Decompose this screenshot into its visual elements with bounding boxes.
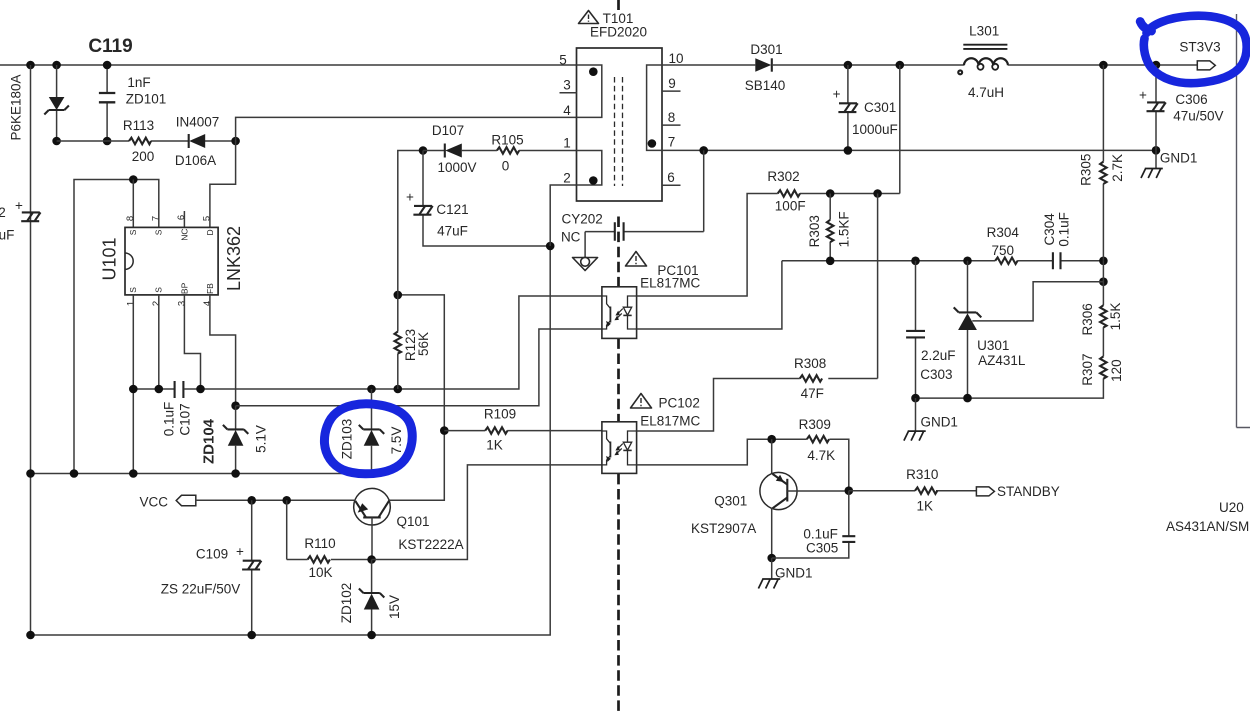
inductor L301 4.7uH	[963, 45, 1007, 49]
svg-text:IN4007: IN4007	[176, 114, 220, 129]
svg-text:7: 7	[150, 216, 161, 221]
svg-text:R110: R110	[304, 536, 335, 551]
svg-text:0.1uF: 0.1uF	[161, 402, 176, 437]
svg-text:BP: BP	[180, 282, 190, 294]
svg-text:47u/50V: 47u/50V	[1173, 108, 1223, 123]
svg-text:D106A: D106A	[175, 153, 216, 168]
svg-text:+: +	[1139, 87, 1147, 102]
wire T101 pin3 stub	[560, 92, 577, 94]
resistor R307 120	[916, 378, 1104, 398]
svg-text:L301: L301	[969, 23, 999, 38]
diode PC101 LED	[628, 296, 637, 329]
resistor R304 750	[995, 258, 1017, 265]
svg-text:GND1: GND1	[775, 565, 813, 580]
resistor R305 2.7K	[1102, 65, 1104, 261]
svg-text:EL817MC: EL817MC	[640, 275, 700, 290]
zener ZD104 5.1V	[235, 406, 237, 474]
wire U101 pin 2 down	[158, 295, 160, 389]
svg-text:2.7K: 2.7K	[1110, 154, 1125, 182]
capacitor C1x2 22uF fragment at left edge	[21, 212, 40, 221]
resistor R309 4.7K	[807, 436, 829, 443]
wire T101 pin8 stub	[662, 124, 681, 126]
svg-text:2.2uF: 2.2uF	[921, 348, 956, 363]
wire R113 row	[57, 140, 236, 142]
svg-text:R105: R105	[491, 132, 523, 147]
opto PC102 EL817MC body	[602, 422, 637, 474]
node return left	[26, 469, 35, 478]
annotation blue circle ST3V3	[1144, 16, 1247, 84]
svg-text:R307: R307	[1080, 353, 1095, 385]
svg-text:5.1V: 5.1V	[253, 425, 268, 453]
wire R308 row	[637, 194, 878, 432]
wire VCC row	[196, 499, 354, 501]
opto PC101 EL817MC body	[602, 287, 637, 339]
page border line	[1237, 14, 1250, 428]
svg-text:C119: C119	[88, 36, 132, 57]
wire ref row to PC101 anode	[637, 261, 782, 329]
node gnd row C303	[911, 394, 920, 403]
svg-text:D107: D107	[432, 123, 464, 138]
node return pin1	[129, 469, 138, 478]
capacitor CY202 NC	[585, 150, 704, 257]
resistor R113 200	[129, 138, 151, 145]
node STANDBY flag	[976, 487, 994, 496]
resistor R308 47F	[800, 375, 822, 382]
node rail C306	[1152, 61, 1161, 70]
wire Q101 collector to R123 node	[389, 295, 444, 500]
svg-text:R309: R309	[799, 417, 831, 432]
svg-text:C121: C121	[436, 202, 468, 217]
svg-text:NC: NC	[561, 230, 581, 245]
node rail C301	[844, 61, 853, 70]
svg-text:R308: R308	[794, 356, 826, 371]
node R308 top	[873, 189, 882, 198]
node T101 dot primary	[589, 67, 598, 76]
svg-text:1K: 1K	[486, 437, 503, 452]
svg-text:ZD104: ZD104	[201, 418, 218, 464]
wire pin7 rail	[662, 149, 1156, 151]
svg-text:100F: 100F	[775, 199, 806, 214]
diode D107 1000V	[423, 150, 497, 152]
svg-text:2: 2	[563, 171, 571, 186]
svg-text:1000V: 1000V	[437, 160, 476, 175]
wire isolation barrier dashed	[617, 0, 620, 712]
resistor R306 1.5K	[1102, 261, 1104, 357]
capacitor C107 0.1uF	[175, 381, 184, 398]
node rail2 end C306	[1152, 146, 1161, 155]
node T101 dot aux	[589, 176, 598, 185]
ground GND1 top right	[1155, 150, 1157, 168]
svg-text:0.1uF: 0.1uF	[803, 527, 838, 542]
node return ZD104	[231, 469, 240, 478]
transistor Q101 KST2222A	[354, 488, 391, 525]
svg-text:1: 1	[125, 301, 136, 306]
wire U101 upper-left loop	[74, 180, 159, 474]
node collector R109 tap	[440, 426, 449, 435]
wire U101 pin 6 NC stub	[183, 211, 185, 227]
svg-text:+: +	[15, 198, 23, 213]
svg-text:AZ431L: AZ431L	[978, 353, 1026, 368]
node ref right	[1099, 257, 1108, 266]
node S bus BP	[196, 385, 205, 394]
node bus left	[26, 631, 35, 640]
node D107 junction	[419, 146, 428, 155]
wire pin10 to D301	[662, 64, 755, 66]
node rail2 C301	[844, 146, 853, 155]
wire zener return line	[31, 473, 372, 475]
svg-text:PC102: PC102	[659, 396, 700, 411]
svg-text:3: 3	[176, 301, 187, 306]
svg-text:7.5V: 7.5V	[389, 427, 404, 455]
node bus C109	[247, 631, 256, 640]
node D106A junction	[231, 137, 240, 146]
svg-text:Q301: Q301	[714, 493, 747, 508]
node ref U301	[963, 257, 972, 266]
node TVS bottom corner	[52, 137, 61, 146]
svg-text:1.5K: 1.5K	[1108, 303, 1123, 331]
svg-text:U301: U301	[977, 338, 1009, 353]
svg-text:R113: R113	[123, 118, 154, 133]
svg-text:P6KE180A: P6KE180A	[9, 74, 24, 140]
svg-text:8: 8	[668, 110, 676, 125]
node FB junction	[231, 401, 240, 410]
wire T101 pin9 stub	[662, 90, 681, 92]
wire U301 ref tap	[972, 282, 1103, 321]
svg-text:C107: C107	[177, 403, 192, 435]
shunt regulator U301 AZ431L	[967, 261, 969, 398]
resistor R105 0	[497, 147, 519, 154]
node TVS top junction	[52, 61, 61, 70]
zener ZD103 7.5V	[371, 389, 373, 474]
node U101 pin8 junction	[129, 175, 138, 184]
node ST3V3 flag	[1197, 61, 1215, 70]
capacitor C306 47u/50V	[1155, 65, 1157, 150]
node R123 top junction	[394, 291, 403, 300]
node rail R302 drop	[896, 61, 905, 70]
node ref tap divider	[1099, 277, 1108, 286]
svg-text:1: 1	[563, 136, 571, 151]
transformer T101 EFD2020 body	[577, 48, 663, 201]
svg-text:R304: R304	[987, 225, 1020, 240]
svg-text:1K: 1K	[916, 498, 933, 513]
node ZD101 top junction	[103, 61, 112, 70]
svg-text:+: +	[406, 189, 414, 204]
diode D106A IN4007	[188, 134, 190, 148]
transistor PC102 phototransistor	[602, 431, 611, 465]
svg-text:9: 9	[668, 76, 676, 91]
svg-text:S: S	[128, 229, 138, 235]
svg-text:C304: C304	[1042, 213, 1057, 246]
node Q301 collector gnd	[767, 554, 776, 563]
transistor PC101 phototransistor	[602, 296, 611, 329]
svg-text:C303: C303	[920, 367, 952, 382]
wire D node to U101 pin5	[210, 141, 236, 227]
capacitor C305 0.1uF	[848, 491, 850, 536]
wire top primary rail to transformer pin 5	[0, 64, 602, 66]
svg-text:NC: NC	[180, 228, 190, 240]
svg-text:5: 5	[201, 216, 212, 221]
svg-text:47F: 47F	[801, 386, 824, 401]
svg-text:10: 10	[668, 51, 683, 66]
warning triangle PC102	[631, 394, 652, 409]
svg-text:0.1uF: 0.1uF	[1056, 212, 1071, 247]
svg-text:uF: uF	[0, 228, 14, 243]
svg-text:S: S	[128, 287, 138, 293]
node return x74	[70, 469, 79, 478]
svg-text:KST2907A: KST2907A	[691, 521, 756, 536]
svg-text:KST2222A: KST2222A	[398, 537, 463, 552]
node T101 dot secondary	[648, 139, 657, 148]
svg-text:2: 2	[151, 301, 162, 306]
svg-text:R109: R109	[484, 406, 516, 421]
svg-text:R305: R305	[1078, 154, 1093, 186]
svg-text:200: 200	[132, 149, 155, 164]
svg-text:R303: R303	[807, 215, 822, 247]
wire secondary rail L301 to ST3V3	[1008, 64, 1197, 66]
wire T101 aux winding pin1-pin2	[577, 151, 602, 186]
svg-text:STANDBY: STANDBY	[997, 484, 1060, 499]
node R303 top	[826, 189, 835, 198]
svg-text:R310: R310	[906, 467, 938, 482]
wire base row to PC102 anode	[372, 465, 602, 560]
node R309 left emitter	[767, 435, 776, 444]
ground GND1 Q301	[771, 558, 773, 579]
wire T101 secondary winding pin10-pin7	[647, 65, 662, 150]
node S bus pin2	[155, 385, 164, 394]
wire R302 feedback row	[637, 65, 900, 296]
node VCC flag	[176, 495, 196, 505]
svg-text:4: 4	[202, 301, 213, 306]
svg-text:LNK362: LNK362	[224, 226, 244, 291]
node bus ZD102	[367, 631, 376, 640]
svg-text:5: 5	[559, 53, 567, 68]
svg-text:0: 0	[502, 158, 510, 173]
node ref R303	[826, 257, 835, 266]
wire T101 primary winding pin5-pin4	[577, 65, 602, 117]
svg-text:ST3V3: ST3V3	[1179, 39, 1220, 54]
wire x550 vertical to transformer pin 2	[550, 185, 602, 246]
svg-text:4: 4	[563, 103, 571, 118]
svg-text:4.7K: 4.7K	[807, 448, 835, 463]
svg-text:15V: 15V	[387, 595, 402, 619]
transistor Q301 KST2907A	[771, 439, 773, 474]
wire PC102 anode to R309	[637, 439, 849, 491]
svg-text:ZS 22uF/50V: ZS 22uF/50V	[161, 581, 241, 596]
svg-text:120: 120	[1109, 359, 1124, 382]
capacitor C303 2.2uF	[915, 261, 917, 398]
wire reference row	[782, 260, 1104, 262]
svg-text:3: 3	[563, 78, 571, 93]
capacitor C109 ZS 22uF/50V	[251, 500, 253, 635]
wire U101 pin 3 BP jog	[184, 295, 200, 389]
resistor R109 1K	[444, 430, 602, 432]
svg-text:1.5KF: 1.5KF	[836, 211, 851, 247]
node pin7 CY202 junction	[699, 146, 708, 155]
diode PC102 LED	[628, 431, 637, 465]
ground earth symbol CY202	[573, 258, 598, 271]
svg-text:+: +	[833, 86, 841, 101]
svg-text:Q101: Q101	[396, 514, 429, 529]
svg-text:750: 750	[992, 243, 1015, 258]
svg-text:S: S	[154, 229, 164, 235]
capacitor ZD101 1nF	[106, 65, 108, 141]
svg-text:C301: C301	[864, 100, 896, 115]
resistor R302 100F	[778, 190, 800, 197]
node S bus R123	[394, 385, 403, 394]
svg-text:C109: C109	[196, 546, 228, 561]
node Q101 base junction	[367, 555, 376, 564]
svg-text:4.7uH: 4.7uH	[968, 85, 1004, 100]
svg-text:FB: FB	[205, 283, 215, 294]
node rail-left junction	[26, 61, 35, 70]
resistor R110 10K	[287, 500, 372, 559]
svg-text:1000uF: 1000uF	[852, 122, 898, 137]
PC102 light arrows	[618, 444, 623, 453]
svg-text:CY202: CY202	[561, 211, 602, 226]
capacitor C301 1000uF	[847, 65, 849, 150]
diode D301 SB140	[755, 58, 771, 71]
svg-text:6: 6	[667, 170, 675, 185]
svg-text:U20: U20	[1219, 500, 1244, 515]
svg-text:EL817MC: EL817MC	[640, 413, 700, 428]
resistor R123 56K	[397, 295, 399, 389]
wire secondary rail D301 to L301	[772, 64, 964, 66]
wire T101 pin6 stub	[662, 184, 681, 186]
svg-text:U101: U101	[100, 237, 120, 280]
wire T101 core dashed lines	[615, 77, 623, 186]
annotation blue circle ZD103	[324, 404, 412, 474]
ground GND1 middle	[915, 398, 917, 431]
warning triangle T101	[579, 11, 599, 24]
svg-text:R302: R302	[767, 169, 799, 184]
svg-text:GND1: GND1	[920, 415, 958, 430]
wire U101 pin 1 down	[132, 295, 134, 474]
node S bus pin1	[129, 385, 138, 394]
wire to transformer pin 4	[236, 117, 602, 141]
node VCC C109	[247, 496, 256, 505]
svg-text:ZD102: ZD102	[339, 583, 354, 624]
svg-text:1nF: 1nF	[127, 75, 150, 90]
svg-text:7: 7	[668, 135, 676, 150]
svg-text:C306: C306	[1175, 92, 1207, 107]
warning triangle PC101	[626, 252, 647, 267]
node gnd row U301	[963, 394, 972, 403]
svg-text:ZD101: ZD101	[126, 91, 167, 106]
capacitor C304 0.1uF	[1053, 252, 1061, 269]
svg-text:C305: C305	[806, 540, 838, 555]
wire FB to PC101 cathode	[236, 329, 602, 406]
resistor R303 1.5KF	[829, 194, 831, 261]
svg-text:2: 2	[0, 205, 6, 220]
svg-text:+: +	[236, 544, 244, 559]
svg-text:S: S	[154, 287, 164, 293]
node S bus ZD103	[367, 385, 376, 394]
node C121 return junction	[546, 242, 555, 251]
svg-text:SB140: SB140	[745, 78, 786, 93]
op-amp U101 LNK362 body	[125, 227, 218, 295]
svg-text:47uF: 47uF	[437, 223, 468, 238]
wire U101 pin 8 stub	[132, 180, 134, 228]
svg-text:D: D	[205, 229, 215, 235]
svg-text:EFD2020: EFD2020	[590, 25, 647, 40]
node Q301 base R310	[845, 486, 854, 495]
svg-text:6: 6	[176, 215, 187, 220]
svg-text:D301: D301	[750, 42, 782, 57]
svg-text:GND1: GND1	[1160, 150, 1198, 165]
wire left main vertical	[30, 65, 32, 635]
svg-text:8: 8	[125, 216, 136, 221]
wire U101 pin 4 FB jog	[210, 295, 236, 406]
wire bottom primary bus	[31, 246, 551, 635]
svg-text:AS431AN/SM: AS431AN/SM	[1166, 519, 1249, 534]
svg-text:56K: 56K	[416, 332, 431, 356]
node VCC R110	[282, 496, 291, 505]
node ZD101 bottom junction	[103, 137, 112, 146]
node ref C303	[911, 257, 920, 266]
wire collector gnd row to C305	[772, 542, 849, 558]
wire S bus left segment	[133, 388, 174, 390]
wire D107 node down to R123	[398, 151, 423, 295]
PC101 light arrows	[618, 309, 623, 318]
diode D-TVS P6KE180A	[56, 65, 58, 141]
svg-text:ZD103: ZD103	[340, 419, 355, 460]
svg-text:10K: 10K	[308, 565, 332, 580]
wire S bus right segment	[184, 296, 602, 389]
zener ZD102 15V	[371, 560, 373, 636]
capacitor C121 47uF	[423, 151, 550, 247]
svg-text:VCC: VCC	[140, 495, 169, 510]
resistor R310 1K	[849, 490, 977, 492]
node rail R305	[1099, 61, 1108, 70]
svg-text:R306: R306	[1080, 303, 1095, 335]
